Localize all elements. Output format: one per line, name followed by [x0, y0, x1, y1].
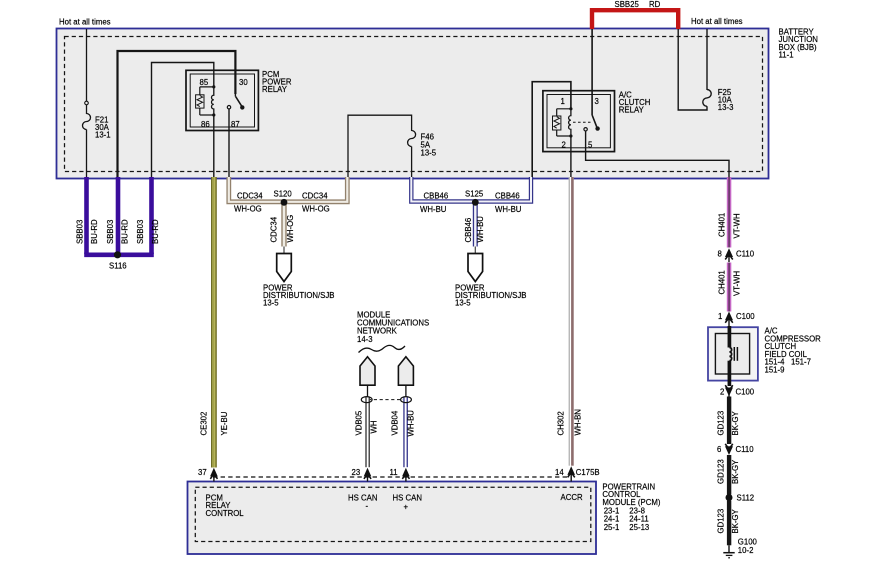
wire CH302 WH-BN — [557, 177, 583, 466]
labels CDC34 S120 — [234, 190, 330, 243]
svg-text:CH302: CH302 — [557, 411, 566, 435]
svg-text:WH-BU: WH-BU — [420, 205, 447, 214]
wire feed to pin 30 — [118, 51, 236, 178]
relay AC switch 3-5 — [573, 116, 600, 132]
wire CBB46 branch to AC relay pin 1 — [532, 82, 571, 178]
svg-text:WH-BU: WH-BU — [495, 205, 522, 214]
label AC compressor clutch field coil — [765, 327, 822, 375]
wire CH401 VT-WH upper — [718, 177, 742, 248]
pin 14 arrow C175B — [555, 466, 600, 481]
svg-text:WH-BN: WH-BN — [573, 409, 582, 435]
wire AC relay pin 5 to CH401 — [586, 131, 729, 178]
connector C100 pin 2 — [720, 385, 755, 397]
svg-text:SBB03: SBB03 — [76, 220, 85, 244]
svg-text:30: 30 — [239, 78, 248, 87]
wire CDC34 WH-OG bus with S120 — [229, 177, 347, 254]
svg-text:WH-OG: WH-OG — [302, 205, 330, 214]
label powertrain control module — [602, 483, 660, 533]
svg-text:CDC34: CDC34 — [270, 216, 279, 242]
wire feed to pin 85 — [152, 63, 214, 179]
fuse F25 — [678, 29, 733, 112]
svg-text:BK-GY: BK-GY — [731, 410, 740, 435]
svg-text:2: 2 — [720, 388, 724, 397]
svg-text:WH-BU: WH-BU — [476, 216, 485, 243]
svg-text:C100: C100 — [736, 388, 755, 397]
pin 23 arrow — [352, 468, 372, 482]
svg-text:HS CAN: HS CAN — [393, 494, 422, 503]
svg-text:10-2: 10-2 — [738, 546, 754, 555]
connector C110 pin 6 — [717, 444, 754, 455]
svg-text:CONTROL: CONTROL — [206, 509, 245, 518]
relay PCM coil with resistor — [196, 85, 216, 116]
wire CH401 VT-WH lower — [718, 263, 742, 312]
wire SBB03 BU-RD left — [84, 177, 89, 254]
relay PCM power relay box — [186, 70, 258, 130]
connector arrow to power distribution left — [263, 254, 334, 308]
ground G100 — [723, 538, 757, 558]
svg-text:5: 5 — [588, 141, 593, 150]
wire GD123 BK-GY 2 — [717, 455, 741, 495]
pin 37 arrow — [198, 468, 218, 482]
wire SBB03 BU-RD right — [149, 177, 154, 254]
svg-text:87: 87 — [231, 120, 240, 129]
svg-text:11: 11 — [390, 468, 398, 477]
svg-text:S125: S125 — [465, 190, 484, 199]
label BJB — [779, 28, 818, 60]
svg-text:S112: S112 — [737, 494, 755, 503]
wire CE302 YE-BU — [200, 177, 230, 468]
svg-text:VT-WH: VT-WH — [733, 271, 742, 296]
connector arrow HS CAN minus up — [360, 357, 375, 404]
relay AC clutch relay box — [543, 91, 615, 152]
svg-text:+: + — [404, 502, 409, 511]
label PCM power relay — [262, 70, 292, 94]
inline connector dashed tie — [368, 399, 403, 401]
svg-text:85: 85 — [200, 78, 209, 87]
svg-text:CDC34: CDC34 — [237, 191, 263, 200]
svg-text:8: 8 — [718, 250, 722, 259]
svg-text:HS CAN: HS CAN — [348, 494, 377, 503]
svg-text:13-5: 13-5 — [455, 299, 471, 308]
svg-text:CE302: CE302 — [200, 412, 209, 436]
connector arrow HS CAN plus up — [398, 357, 413, 404]
svg-text:CH401: CH401 — [718, 213, 727, 237]
svg-text:BK-GY: BK-GY — [731, 508, 740, 533]
wire VDB05 WH — [355, 397, 379, 468]
svg-text:1: 1 — [718, 312, 722, 321]
svg-text:WH-BU: WH-BU — [407, 410, 416, 437]
svg-text:WH-OG: WH-OG — [286, 215, 295, 243]
svg-text:RD: RD — [649, 0, 661, 9]
wire AC relay pin 3 from red — [591, 29, 593, 116]
wire GD123 BK-GY 1 — [717, 397, 741, 445]
svg-text:GD123: GD123 — [717, 459, 726, 484]
fuse F21 — [83, 29, 111, 178]
connector C100 pin 1 — [718, 312, 755, 327]
svg-text:VDB05: VDB05 — [355, 410, 364, 435]
labels CBB46 S125 — [420, 190, 522, 243]
connector arrow to power distribution right — [455, 254, 526, 308]
svg-text:23: 23 — [352, 468, 361, 477]
svg-text:86: 86 — [201, 120, 210, 129]
svg-text:GD123: GD123 — [717, 411, 726, 436]
relay AC coil with resistor — [553, 107, 573, 137]
svg-text:CH401: CH401 — [718, 270, 727, 294]
svg-text:ACCR: ACCR — [561, 493, 583, 502]
inline connector ellipses — [361, 397, 411, 403]
svg-text:BU-RD: BU-RD — [90, 219, 99, 244]
svg-text:13-5: 13-5 — [263, 299, 279, 308]
svg-text:S116: S116 — [109, 262, 127, 271]
svg-text:6: 6 — [717, 445, 721, 454]
svg-text:YE-BU: YE-BU — [220, 411, 229, 435]
svg-text:WH-OG: WH-OG — [234, 205, 262, 214]
wire pin 87 down — [228, 109, 230, 178]
pin 11 arrow — [390, 468, 410, 482]
svg-text:151-9: 151-9 — [765, 366, 785, 375]
svg-text:25-13: 25-13 — [629, 523, 649, 532]
svg-text:13-3: 13-3 — [718, 103, 734, 112]
node S112 — [726, 494, 755, 503]
svg-text:CBB46: CBB46 — [495, 191, 520, 200]
svg-text:SBB25: SBB25 — [615, 0, 640, 9]
svg-text:Hot at all times: Hot at all times — [691, 17, 743, 26]
svg-text:25-1: 25-1 — [604, 523, 620, 532]
wire SBB25 RD red jumper — [592, 0, 678, 29]
svg-text:14-3: 14-3 — [357, 335, 373, 344]
wire AC relay pin 2 down — [570, 136, 572, 178]
svg-text:11-1: 11-1 — [779, 51, 794, 60]
svg-text:CBB46: CBB46 — [464, 218, 473, 243]
svg-text:BU-RD: BU-RD — [151, 219, 160, 244]
svg-text:BK-GY: BK-GY — [731, 459, 740, 484]
svg-text:BU-RD: BU-RD — [121, 219, 130, 244]
svg-text:C175B: C175B — [576, 468, 600, 477]
svg-text:WH: WH — [370, 421, 379, 434]
svg-text:RELAY: RELAY — [262, 85, 288, 94]
svg-text:14: 14 — [555, 468, 564, 477]
wire pin 86 down — [213, 115, 215, 178]
svg-text:CBB46: CBB46 — [424, 191, 449, 200]
svg-text:1: 1 — [561, 97, 565, 106]
svg-text:3: 3 — [595, 97, 599, 106]
svg-text:C110: C110 — [736, 445, 755, 454]
svg-text:CDC34: CDC34 — [302, 191, 328, 200]
wavy brace — [359, 345, 406, 352]
wire CBB46 WH-BU bus with S125 — [411, 177, 531, 254]
wire VDB04 WH-BU — [391, 397, 416, 468]
AC compressor clutch field coil box — [708, 326, 758, 386]
svg-text:VDB04: VDB04 — [391, 410, 400, 435]
svg-text:S120: S120 — [274, 190, 293, 199]
svg-text:37: 37 — [198, 468, 207, 477]
svg-text:GD123: GD123 — [717, 509, 726, 534]
svg-text:2: 2 — [562, 141, 566, 150]
svg-text:VT-WH: VT-WH — [733, 213, 742, 238]
svg-text:SBB03: SBB03 — [106, 220, 115, 244]
labels inside PCM box — [206, 493, 583, 518]
node S116 — [84, 251, 154, 270]
connector C110 pin 8 — [718, 248, 755, 262]
svg-text:13-1: 13-1 — [95, 131, 111, 140]
relay PCM switch 30-87 — [227, 94, 244, 110]
svg-text:C100: C100 — [736, 312, 755, 321]
svg-text:-: - — [366, 501, 369, 510]
battery junction box BJB — [57, 29, 769, 179]
label module communications network — [357, 311, 429, 344]
svg-text:C110: C110 — [736, 250, 755, 259]
svg-text:SBB03: SBB03 — [136, 220, 145, 244]
svg-text:13-5: 13-5 — [421, 149, 437, 158]
fuse F46 — [348, 115, 437, 178]
label AC clutch relay — [619, 91, 651, 115]
svg-text:Hot at all times: Hot at all times — [59, 18, 111, 27]
svg-text:RELAY: RELAY — [619, 106, 645, 115]
labels SBB03 BU-RD wires — [76, 219, 161, 244]
svg-text:151-7: 151-7 — [791, 358, 811, 367]
PCM box — [188, 482, 597, 555]
wire SBB03 BU-RD middle — [116, 177, 121, 254]
wire GD123 BK-GY 3 — [717, 501, 741, 546]
dashed connector line C175B — [213, 476, 570, 478]
